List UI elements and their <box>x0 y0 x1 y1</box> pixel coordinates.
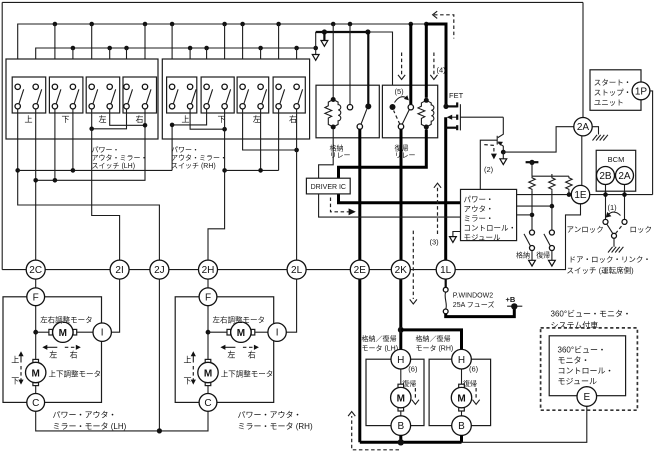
node: bus2 junction <box>204 46 209 51</box>
wire: module line C <box>517 214 532 216</box>
switch contact top <box>142 84 147 89</box>
svg-text:復帰: 復帰 <box>536 251 550 260</box>
wire: off-page stub under bus2 end <box>315 48 317 55</box>
node: bus1 junction <box>170 22 175 27</box>
wire: fuse to +B <box>446 306 515 316</box>
svg-text:パワー・アウタ・: パワー・アウタ・ <box>238 411 302 420</box>
node: bus1 junction <box>424 22 429 27</box>
switch contact top <box>89 84 94 89</box>
node: B LH junction <box>398 439 404 445</box>
svg-text:右: 右 <box>248 349 256 359</box>
switch arm <box>128 89 133 104</box>
switch box 上 <box>167 77 197 113</box>
wire: tick to rail <box>531 162 533 176</box>
transistor Q1 (PNP) <box>496 136 498 145</box>
wire: RH down-right bottom through common to 2H <box>208 109 225 260</box>
connector 2E <box>350 260 369 279</box>
svg-text:2C: 2C <box>29 265 42 276</box>
svg-text:格納: 格納 <box>516 251 530 260</box>
FET body stub with arrow <box>450 116 458 118</box>
svg-text:M: M <box>204 369 212 380</box>
wire: LH left-right bottom to right-right link <box>110 109 145 125</box>
wire: 2J drop to motor common <box>158 279 160 431</box>
svg-text:+B: +B <box>506 295 516 304</box>
connector 2K <box>391 260 410 279</box>
connector arrow: off-page (2) <box>500 159 507 165</box>
node: motor junction <box>206 330 211 335</box>
svg-text:モータ (LH): モータ (LH) <box>362 344 399 353</box>
svg-text:ミラー・: ミラー・ <box>464 214 494 223</box>
wire: LH up-left bottom to bus3 and 2J feed <box>18 109 160 260</box>
up-down direction arrows <box>20 355 22 363</box>
switch arm <box>524 234 530 246</box>
node: line C junction <box>530 213 535 218</box>
wire: transistor base from module <box>480 140 497 189</box>
wire: junction to LR motor <box>36 331 49 333</box>
svg-text:ミラー・モータ (RH): ミラー・モータ (RH) <box>238 422 313 431</box>
svg-text:2E: 2E <box>354 265 367 276</box>
flow arrow (3) dashed up <box>437 188 439 235</box>
switch contact bottom <box>124 104 129 109</box>
wire: B common thick line <box>360 441 462 444</box>
switch contact bottom <box>107 104 112 109</box>
svg-text:F: F <box>205 292 211 303</box>
switch contact bottom <box>142 104 147 109</box>
wire: FET gate lead <box>460 116 503 118</box>
svg-text:M: M <box>457 394 465 405</box>
wire: upper supply bus 2 <box>36 48 316 87</box>
wire: relay2 coil top thick lead <box>425 24 428 98</box>
left-right direction arrows <box>224 346 236 348</box>
svg-text:右: 右 <box>70 349 78 359</box>
switch box 下 <box>49 77 83 113</box>
power outer mirror switch (RH) box <box>162 59 309 139</box>
svg-text:左: 左 <box>49 349 57 359</box>
svg-text:M: M <box>32 369 40 380</box>
svg-text:(3): (3) <box>430 238 440 247</box>
door lock switch arm <box>607 224 613 234</box>
svg-text:E: E <box>583 392 590 403</box>
wire: RH right-right bottom to 2L <box>296 109 298 260</box>
wire: RH up-left bottom to down-left link and bus3 end <box>172 109 207 170</box>
wire: R2 top from rail <box>551 174 553 176</box>
wire: bus4 (LH select) <box>36 109 145 180</box>
svg-text:ストップ・: ストップ・ <box>594 88 632 97</box>
wire: LH down-left bottom to bus4 <box>54 109 56 180</box>
connector B (LH) <box>391 416 411 436</box>
switch arm <box>280 89 285 104</box>
svg-text:復帰: 復帰 <box>402 379 416 388</box>
svg-text:F: F <box>33 292 39 303</box>
svg-text:上: 上 <box>184 355 192 364</box>
svg-text:1L: 1L <box>440 265 452 276</box>
wire: bus2 drop to switch RH-right-right <box>296 48 298 84</box>
switch arm <box>37 89 42 104</box>
FET channel segments <box>456 102 458 107</box>
wire: 2E thick drop to B common <box>358 279 361 442</box>
node: bus2 junction <box>294 46 299 51</box>
wire: bus1 drop to switch LH-down-left <box>54 24 56 84</box>
svg-text:リレー: リレー <box>330 152 351 159</box>
switch arm <box>111 89 116 104</box>
wire: resistor rail <box>532 175 569 177</box>
wire: bus1 drop to switch RH-up-left <box>171 24 173 84</box>
connector B (RH) <box>452 416 472 436</box>
switch arm <box>544 234 550 246</box>
connector 2A (to start stop unit) <box>574 118 592 136</box>
node: bus2 junction <box>71 46 76 51</box>
switch contact bottom <box>240 104 245 109</box>
svg-text:下: 下 <box>11 376 19 385</box>
svg-text:360°ビュー・モニタ・: 360°ビュー・モニタ・ <box>551 310 632 319</box>
node: RH link at down-right <box>222 127 227 132</box>
node: RH common at left-right <box>258 168 263 173</box>
wire: emitter to connector 2A <box>503 127 574 152</box>
FET drain thick lead from bus1 <box>426 24 446 106</box>
node: H branch <box>398 327 404 333</box>
switch contact top <box>530 230 535 235</box>
wire: relay1 coil bottom lead to DRIVER IC <box>319 130 334 179</box>
svg-text:360°ビュー・: 360°ビュー・ <box>558 345 607 354</box>
node: RH link at up-left <box>170 123 175 128</box>
svg-text:2K: 2K <box>395 265 408 276</box>
wire: H branch to RH motor <box>401 330 462 350</box>
wire: bus1 drop to switch LH-right-right <box>144 24 146 84</box>
svg-text:(6): (6) <box>408 364 418 373</box>
relay2 dashed arm (actuated position) <box>394 111 400 125</box>
switch arm <box>19 89 24 104</box>
switch contact top <box>222 84 227 89</box>
svg-text:2I: 2I <box>115 265 123 276</box>
wire: LR motor to I <box>255 331 268 333</box>
resistor (pull-up) <box>549 176 555 191</box>
connector 2I <box>110 260 129 279</box>
svg-text:左: 左 <box>99 114 107 124</box>
switch contact bottom <box>530 246 535 251</box>
switch contact top <box>258 84 263 89</box>
wire: relay2 common thick lead to 2K <box>400 129 403 260</box>
connector 2H <box>199 260 218 279</box>
wire: C common line LH-RH with 2J tap <box>36 411 208 431</box>
flow arrow: dashed left-pointing at top <box>434 15 454 39</box>
relay coil (resistor + inductor in parallel) <box>325 100 341 128</box>
svg-text:P.WINDOW2: P.WINDOW2 <box>453 292 493 299</box>
wire: bus1 drop to switch RH-left-left <box>242 24 244 84</box>
flow arrow dashed down (return) <box>475 388 477 400</box>
switch contact top <box>107 84 112 89</box>
wire: M to B <box>400 411 402 416</box>
switch box 下 <box>201 77 234 113</box>
switch box 右 <box>273 77 305 113</box>
svg-text:スイッチ (LH): スイッチ (LH) <box>92 162 136 170</box>
relay2 stationary contact (filled) <box>390 104 396 110</box>
flow arrow: DRIVER IC dashed to 2E line <box>331 198 349 212</box>
svg-text:下: 下 <box>184 376 192 385</box>
svg-text:アンロック: アンロック <box>567 225 604 234</box>
svg-text:2A: 2A <box>618 171 631 182</box>
svg-text:パワー・: パワー・ <box>92 146 120 154</box>
svg-text:(1): (1) <box>608 203 618 212</box>
wire: bus2 drop to switch RH-left-right <box>260 48 262 84</box>
svg-text:2L: 2L <box>291 265 303 276</box>
motor M (retract/return) <box>398 384 404 388</box>
svg-text:スイッチ (RH): スイッチ (RH) <box>171 162 216 170</box>
svg-text:モニタ・: モニタ・ <box>558 356 590 365</box>
switch contact bottom <box>276 104 281 109</box>
wire: switch to arrow <box>551 251 553 261</box>
node: 2J tap on C common <box>157 428 162 433</box>
power outer mirror control module box <box>461 189 517 240</box>
wire: BCM 2B lead down <box>605 185 607 220</box>
switch arm <box>244 89 249 104</box>
retract/return motor (RH) box <box>429 359 491 425</box>
svg-text:ドア・ロック・リンク・: ドア・ロック・リンク・ <box>569 255 651 264</box>
wire: R2 drop to return switch <box>551 191 553 230</box>
switch arm <box>56 89 61 104</box>
DRIVER IC box <box>306 178 350 194</box>
wire: 2A to 1E <box>581 136 583 186</box>
node: bus3 at down-right <box>71 168 76 173</box>
FET gate bar <box>459 104 461 130</box>
switch contact bottom <box>294 104 299 109</box>
switch contact top <box>124 84 129 89</box>
power outer mirror motor (RH) box <box>175 297 274 403</box>
switch contact bottom <box>549 246 554 251</box>
FET source vertical <box>444 117 447 260</box>
motor M (up-down adjust) <box>205 359 211 363</box>
node: bus4 at up-right <box>33 178 38 183</box>
left-right direction arrows <box>46 346 58 348</box>
wire: 2A to ground <box>592 127 598 135</box>
svg-text:上: 上 <box>25 115 33 124</box>
door lock switch common <box>612 233 617 238</box>
node: RH link on 2L line <box>294 148 299 153</box>
node: bus1 junction <box>143 22 148 27</box>
node: R3 junction on 1E line <box>567 192 572 197</box>
wire: F to up-down motor <box>35 306 37 360</box>
wire: RH up-right bottom to down-right link <box>190 109 225 129</box>
transistor emitter lead with arrow <box>498 143 504 153</box>
svg-text:右: 右 <box>289 114 297 124</box>
node: FET drain stub <box>443 104 448 109</box>
wire: LR motor to I <box>77 331 93 333</box>
svg-text:DRIVER IC: DRIVER IC <box>311 184 346 191</box>
node: LH link at right-right <box>143 123 148 128</box>
switch arm <box>146 89 151 104</box>
action arrow (1) <box>608 212 621 215</box>
switch contact bottom <box>33 104 38 109</box>
switch contact bottom <box>169 104 174 109</box>
connector F (LH) <box>27 288 45 306</box>
switch contact top <box>52 84 57 89</box>
connector arrow: off-page (module) <box>450 237 457 243</box>
connector I (LH) <box>93 323 111 341</box>
svg-text:M: M <box>237 328 245 339</box>
retract relay (kakunou relay) box <box>316 85 379 138</box>
svg-text:システム付車: システム付車 <box>551 320 599 330</box>
wire: LH 2I feed from left-left junction <box>92 129 120 260</box>
svg-text:リレー: リレー <box>395 152 416 159</box>
svg-text:FET: FET <box>449 91 464 100</box>
wire: B RH lead <box>460 435 463 442</box>
node: bus1 junction <box>53 22 58 27</box>
connector C (RH) <box>199 394 217 412</box>
ground symbol (door lock) <box>608 247 623 253</box>
wire: M to B <box>461 411 463 416</box>
wire: relay feed line thick part <box>316 31 368 33</box>
switch contact bottom <box>70 104 75 109</box>
connector 1E <box>571 185 589 203</box>
wire: module line B <box>517 205 552 207</box>
wire: UD motor to C <box>35 386 37 394</box>
wire: connector row line <box>2 204 580 270</box>
transistor collector lead <box>498 117 504 137</box>
node: RH common at down-right drop <box>222 168 227 173</box>
svg-text:スタート・: スタート・ <box>594 78 632 87</box>
flow arrow dashed down through row (right of 2K) <box>412 231 414 299</box>
svg-text:上: 上 <box>11 355 19 364</box>
wire: relay1 NO contact thick lead <box>367 32 369 104</box>
svg-text:モータ (RH): モータ (RH) <box>416 344 454 353</box>
node: bus1 junction <box>331 22 336 27</box>
switch arm <box>191 89 196 104</box>
svg-text:1P: 1P <box>635 86 648 97</box>
svg-text:左右調整モータ: 左右調整モータ <box>213 314 266 324</box>
wire: bus2 drop to switch RH-up-right <box>189 48 191 84</box>
wire: bus2 drop to switch LH-right-left <box>126 48 128 84</box>
svg-text:H: H <box>397 355 404 366</box>
svg-text:C: C <box>32 398 39 409</box>
node: bus2 junction <box>313 46 318 51</box>
node: bus1 junction <box>222 22 227 27</box>
svg-text:復帰: 復帰 <box>463 379 477 388</box>
wire: bus1 drop to switch RH-right-left <box>278 24 280 84</box>
connector arrow: off-page <box>549 260 556 266</box>
switch contact top <box>70 84 75 89</box>
connector 2A (BCM) <box>616 167 634 185</box>
wire: R1 drop to retract switch <box>531 191 533 230</box>
svg-text:アウタ・ミラー・: アウタ・ミラー・ <box>92 153 148 162</box>
connector arrow: off-page (bus2) <box>312 55 319 61</box>
motor M (retract/return) <box>459 384 465 388</box>
flow arrow (4) dashed down <box>433 53 435 75</box>
connector 2C <box>26 260 45 279</box>
wire: DRIVER IC output to module <box>319 194 461 217</box>
svg-text:(5): (5) <box>395 87 405 96</box>
switch arm <box>208 89 213 104</box>
svg-text:左: 左 <box>253 114 261 124</box>
wire: BCM 2A lead down <box>624 185 626 220</box>
motor M (up-down adjust) <box>33 359 39 363</box>
connector 2L <box>287 260 306 279</box>
svg-text:2H: 2H <box>202 265 215 276</box>
wire: RH common line <box>225 169 279 171</box>
wire: 1E to BCM and 1P riser <box>590 194 653 196</box>
connector 1P <box>632 82 650 100</box>
node: 2B junction <box>603 192 608 197</box>
wire: F to up-down motor <box>207 306 209 360</box>
wire: bus2 riser to relay feed line <box>315 32 317 48</box>
connector H (LH) <box>391 349 411 369</box>
wire: relay2 NC thick lead from bus1 <box>409 24 412 105</box>
wire: junction to LR motor <box>208 331 227 333</box>
switch box 右 <box>123 77 157 113</box>
switch contact bottom <box>258 104 263 109</box>
wire: bus2 drop to switch RH-down-left <box>206 48 208 84</box>
connector I (RH) <box>268 323 286 341</box>
relay2 movable arm <box>402 110 409 125</box>
wire: 2H drop to F (RH) <box>207 279 209 288</box>
node: bus3 at up-left <box>15 168 20 173</box>
switch arm <box>226 89 231 104</box>
switch contact bottom <box>204 104 209 109</box>
wire: switch to arrow <box>531 251 533 261</box>
switch arm <box>173 89 178 104</box>
svg-text:H: H <box>458 355 465 366</box>
switch contact top <box>204 84 209 89</box>
return relay (fukki relay) box <box>382 85 437 138</box>
node: bus1 junction <box>409 22 414 27</box>
svg-text:ミラー・モータ (LH): ミラー・モータ (LH) <box>53 422 127 431</box>
wire: relay1 coil top lead <box>332 24 334 97</box>
connector 1L <box>436 260 455 279</box>
resistor (pull-up) <box>529 176 535 191</box>
wire: bus3 (up/down common LH) <box>18 169 172 171</box>
resistor (pull-up) <box>566 176 572 191</box>
node: emitter junction <box>501 150 506 155</box>
wire: R3 drop to 1E line <box>568 191 570 195</box>
svg-text:2B: 2B <box>599 171 612 182</box>
wire: E to B common <box>462 406 587 442</box>
switch contact top <box>240 84 245 89</box>
motor M (left-right adjust) <box>227 329 231 335</box>
power outer mirror switch (LH) box <box>6 59 158 139</box>
svg-text:25A フューズ: 25A フューズ <box>453 300 495 309</box>
svg-text:(2): (2) <box>484 165 494 174</box>
svg-text:モジュール: モジュール <box>558 377 597 386</box>
relay1 movable arm <box>361 109 367 124</box>
wire: bus1 drop to switch RH-down-right <box>224 24 226 84</box>
svg-text:コントロール・: コントロール・ <box>464 224 517 233</box>
relay1 common contact <box>357 124 362 129</box>
svg-text:パワー・アウタ・: パワー・アウタ・ <box>53 411 117 420</box>
wire: H to M <box>461 369 463 384</box>
wire: 1L thick drop to fuse <box>445 279 447 287</box>
wire: bus2 drop to switch LH-down-right <box>72 48 74 84</box>
relay2 stationary contact (open) <box>408 105 413 110</box>
dashed enclosure (with 360 view monitor) <box>541 328 638 410</box>
svg-text:下: 下 <box>62 115 70 124</box>
connector 2B (BCM) <box>597 167 615 185</box>
wire: riser from top bus to connector 2A <box>582 2 584 118</box>
switch contact top <box>294 84 299 89</box>
flow arrow: dashed up beside 2E drop <box>352 416 399 450</box>
wire: relay1 common thick lead to 2E <box>358 129 361 260</box>
svg-text:I: I <box>101 328 104 339</box>
+B terminal <box>507 305 522 307</box>
flow arrow dashed at transistor <box>484 145 494 154</box>
svg-text:2A: 2A <box>577 122 590 133</box>
wire: 1P to 1E line <box>650 91 653 195</box>
switch contact top <box>549 230 554 235</box>
switch contact bottom <box>187 104 192 109</box>
connector arrow: off-page (feed) <box>321 41 328 47</box>
node: 2A junction <box>622 192 627 197</box>
wire: LH left-left bottom to right-left bottom link <box>92 109 127 129</box>
node: bus1 junction <box>89 22 94 27</box>
relay1 stationary contact (open) <box>347 105 352 110</box>
wire: left side of ground loop <box>1 2 3 269</box>
